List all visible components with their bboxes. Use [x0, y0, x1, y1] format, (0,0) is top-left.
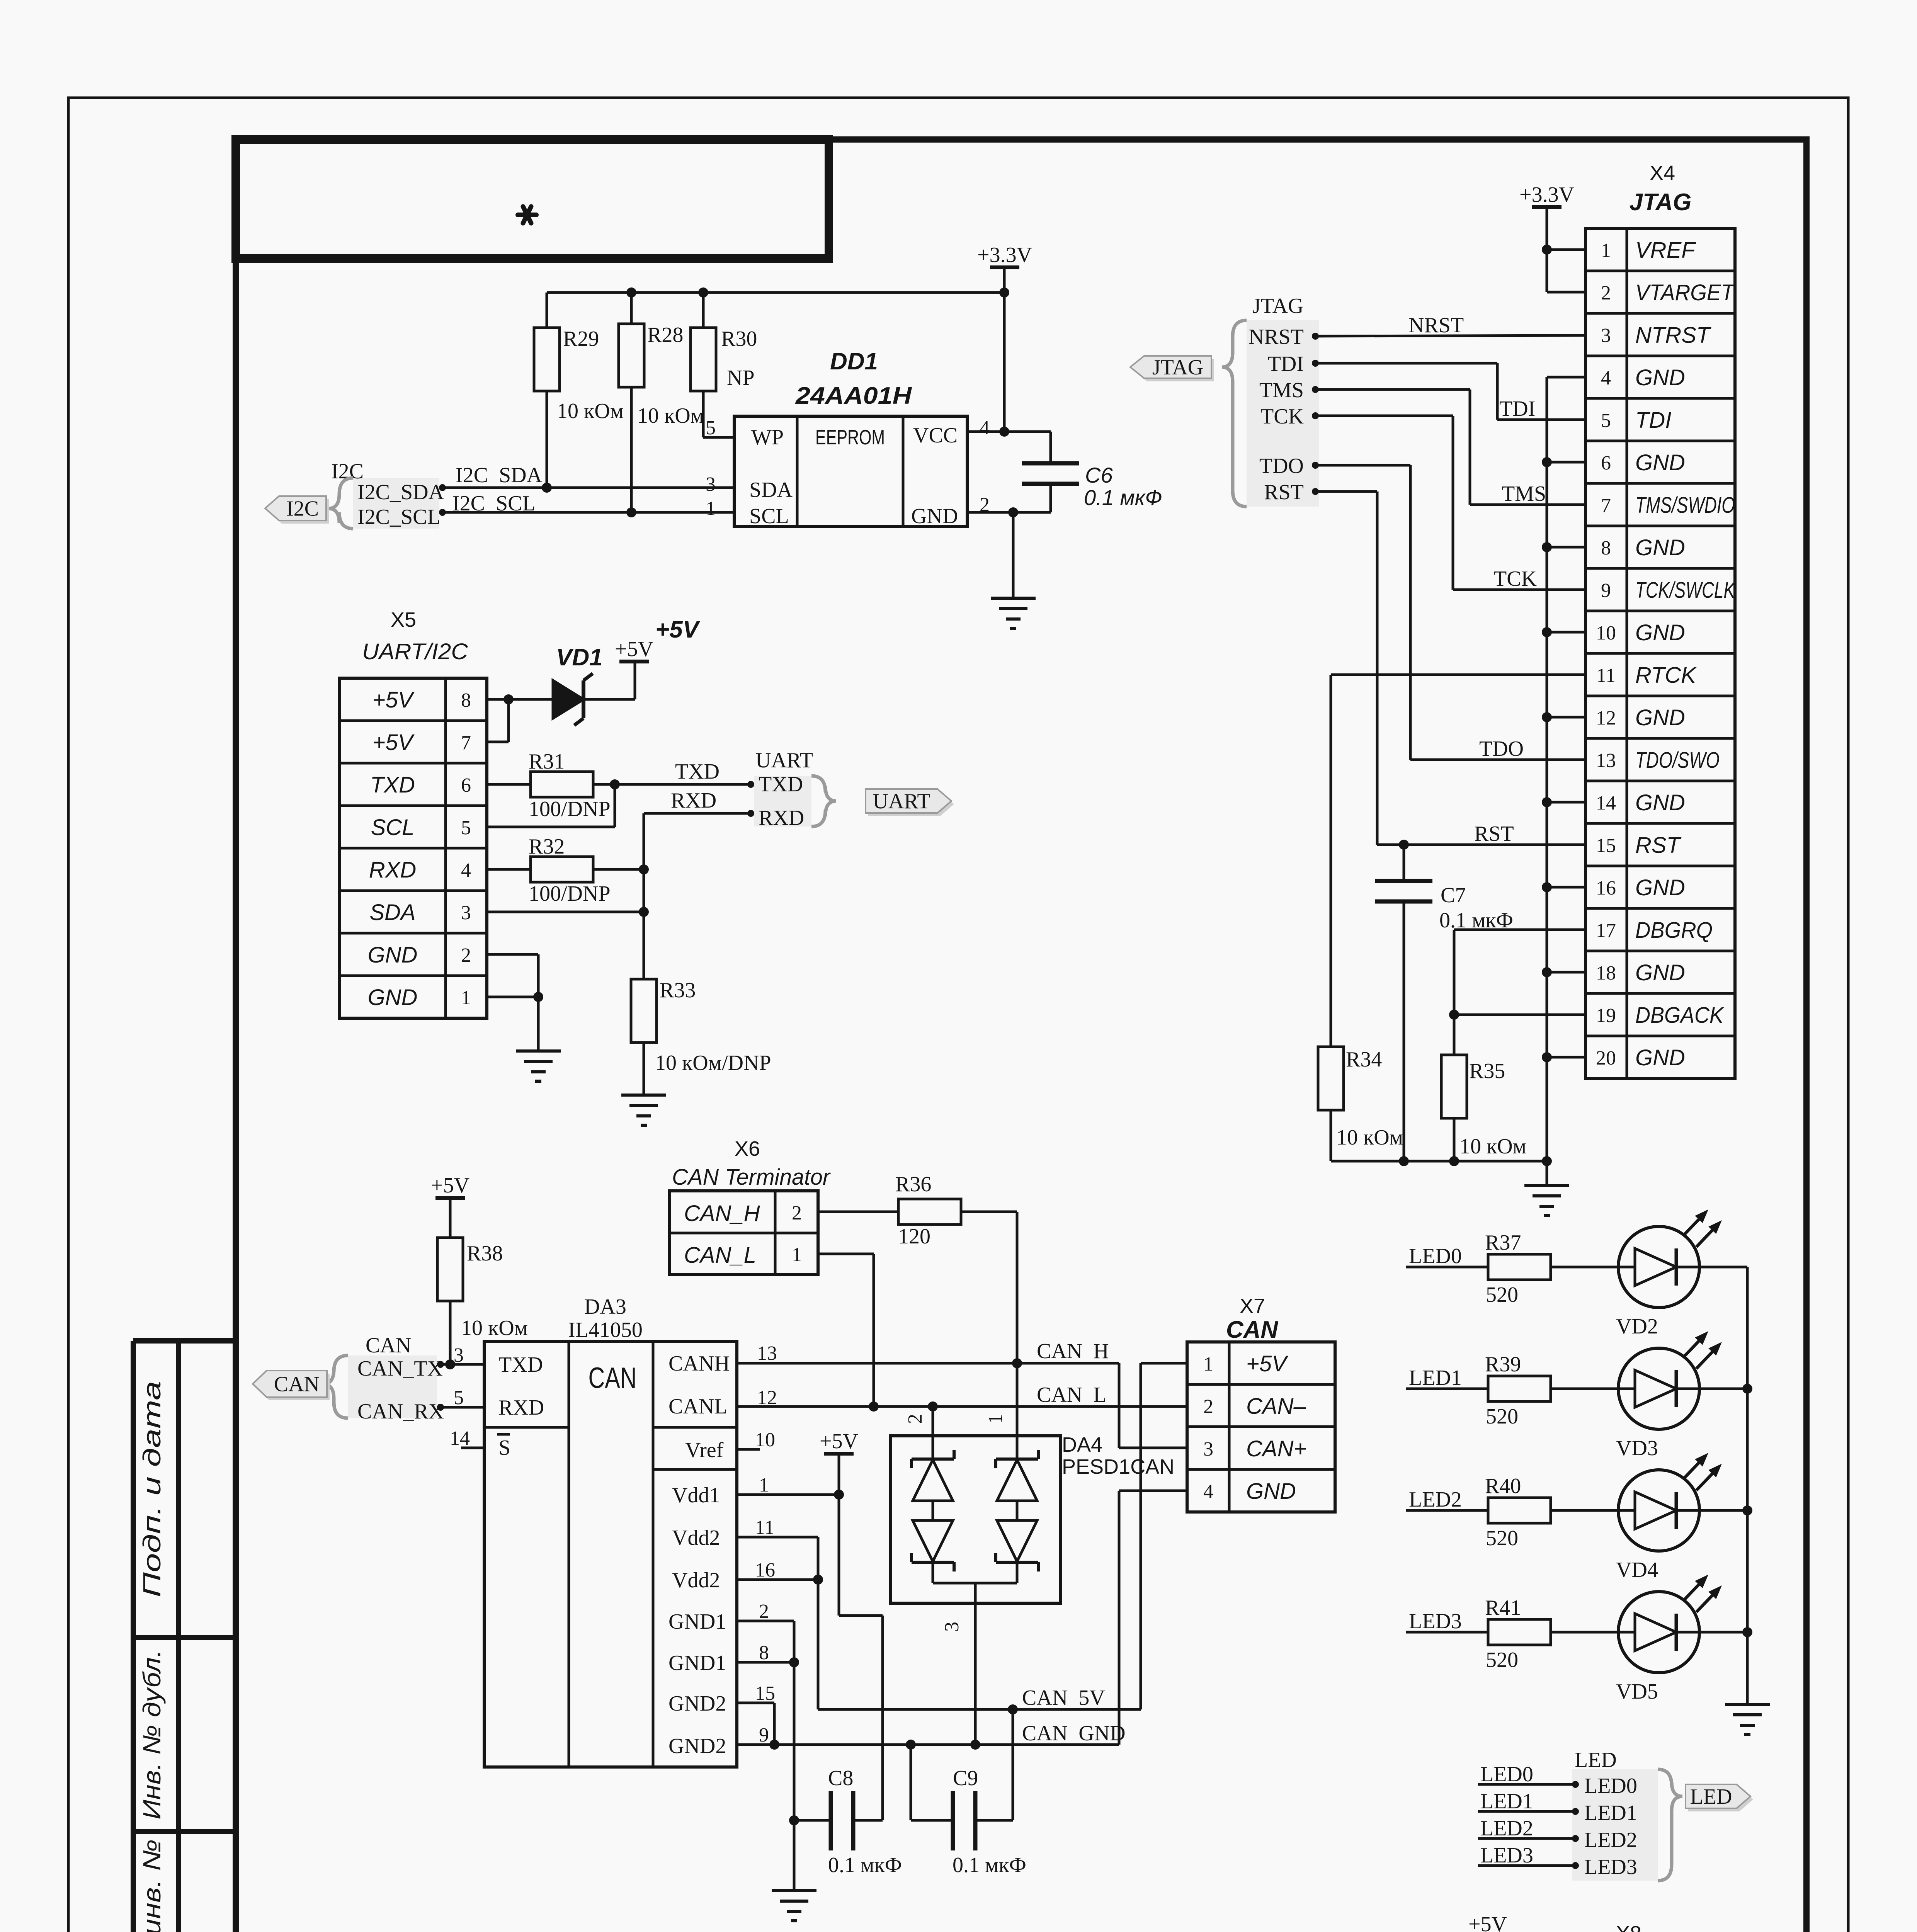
svg-text:C9: C9: [953, 1766, 978, 1790]
svg-text:DD1: DD1: [830, 348, 878, 375]
svg-text:GND: GND: [1635, 705, 1685, 730]
svg-text:Инв. № дубл.: Инв. № дубл.: [138, 1650, 166, 1820]
svg-text:GND2: GND2: [668, 1734, 726, 1758]
svg-text:R36: R36: [895, 1172, 931, 1196]
svg-text:R38: R38: [467, 1242, 503, 1265]
svg-text:GND: GND: [1635, 535, 1685, 560]
svg-text:TXD: TXD: [370, 772, 415, 798]
svg-text:1: 1: [792, 1244, 802, 1266]
svg-text:CAN 5V: CAN 5V: [1022, 1686, 1105, 1710]
svg-text:TXD: TXD: [498, 1353, 543, 1377]
svg-text:RTCK: RTCK: [1635, 663, 1697, 688]
svg-text:+5V: +5V: [820, 1429, 858, 1453]
svg-text:RST: RST: [1635, 833, 1682, 858]
svg-text:CAN H: CAN H: [1037, 1339, 1109, 1363]
svg-text:3: 3: [1601, 325, 1611, 347]
svg-text:+5V: +5V: [1468, 1912, 1507, 1932]
svg-text:VD1: VD1: [556, 644, 603, 671]
svg-text:100/DNP: 100/DNP: [529, 882, 611, 906]
svg-text:3: 3: [454, 1344, 464, 1366]
svg-text:I2C: I2C: [286, 497, 319, 521]
svg-text:2: 2: [1203, 1396, 1213, 1418]
svg-text:R35: R35: [1469, 1059, 1505, 1083]
svg-text:SCL: SCL: [371, 815, 415, 840]
svg-text:3: 3: [941, 1622, 963, 1632]
svg-text:TDI: TDI: [1635, 408, 1671, 433]
svg-text:TCK: TCK: [1493, 567, 1537, 591]
svg-text:R41: R41: [1485, 1596, 1521, 1620]
svg-text:NTRST: NTRST: [1635, 323, 1711, 348]
svg-text:CAN: CAN: [366, 1333, 411, 1357]
svg-text:JTAG: JTAG: [1152, 355, 1203, 379]
svg-text:I2C_SCL: I2C_SCL: [357, 505, 441, 529]
svg-text:X4: X4: [1650, 162, 1675, 185]
svg-text:Vdd2: Vdd2: [672, 1526, 720, 1550]
svg-text:GND: GND: [1635, 450, 1685, 475]
svg-text:16: 16: [1596, 877, 1616, 899]
svg-text:520: 520: [1486, 1283, 1518, 1307]
svg-text:CAN_RX: CAN_RX: [357, 1400, 444, 1423]
svg-text:LED2: LED2: [1409, 1488, 1462, 1512]
svg-text:TMS: TMS: [1259, 378, 1304, 402]
svg-text:1: 1: [461, 987, 471, 1009]
svg-text:3: 3: [1203, 1438, 1213, 1460]
svg-text:2: 2: [759, 1600, 769, 1622]
svg-text:LED1: LED1: [1480, 1789, 1533, 1813]
svg-text:LED0: LED0: [1409, 1244, 1462, 1268]
svg-text:8: 8: [461, 689, 471, 711]
svg-text:LED3: LED3: [1480, 1844, 1533, 1867]
svg-text:6: 6: [1601, 452, 1611, 474]
svg-text:100/DNP: 100/DNP: [529, 797, 611, 821]
svg-text:+3.3V: +3.3V: [977, 243, 1032, 267]
svg-text:CAN_H: CAN_H: [684, 1201, 760, 1226]
svg-text:CAN: CAN: [1226, 1316, 1279, 1343]
svg-text:1: 1: [1203, 1353, 1213, 1375]
svg-text:4: 4: [1203, 1481, 1213, 1503]
svg-text:5: 5: [454, 1387, 464, 1409]
svg-text:Подп. и дата: Подп. и дата: [138, 1381, 166, 1597]
svg-text:GND: GND: [368, 942, 418, 968]
svg-text:VD5: VD5: [1616, 1680, 1658, 1704]
svg-text:6: 6: [461, 774, 471, 796]
svg-text:LED0: LED0: [1480, 1762, 1533, 1786]
svg-text:+5V: +5V: [655, 616, 701, 643]
svg-text:LED2: LED2: [1584, 1828, 1637, 1852]
svg-text:C7: C7: [1441, 883, 1466, 907]
svg-text:CAN_L: CAN_L: [684, 1243, 756, 1268]
svg-text:GND: GND: [1635, 960, 1685, 985]
svg-text:+5V: +5V: [1246, 1351, 1289, 1376]
svg-text:3: 3: [706, 473, 716, 495]
svg-text:GND: GND: [1635, 620, 1685, 645]
svg-text:LED: LED: [1690, 1785, 1732, 1809]
svg-text:CAN+: CAN+: [1246, 1436, 1306, 1461]
svg-text:VTARGET: VTARGET: [1635, 280, 1735, 305]
svg-text:DA4: DA4: [1062, 1433, 1102, 1456]
svg-text:JTAG: JTAG: [1630, 189, 1692, 216]
svg-text:Vref: Vref: [685, 1438, 724, 1462]
svg-text:VD3: VD3: [1616, 1436, 1658, 1460]
svg-text:10: 10: [755, 1429, 775, 1451]
svg-text:R32: R32: [529, 835, 565, 859]
svg-text:NRST: NRST: [1249, 325, 1304, 349]
svg-text:10: 10: [1596, 622, 1616, 644]
svg-text:R39: R39: [1485, 1352, 1521, 1376]
svg-text:14: 14: [450, 1427, 470, 1449]
svg-text:X7: X7: [1240, 1294, 1265, 1318]
svg-text:+5V: +5V: [615, 637, 653, 661]
svg-text:19: 19: [1596, 1005, 1616, 1027]
svg-text:9: 9: [759, 1724, 769, 1746]
svg-text:520: 520: [1486, 1526, 1518, 1550]
svg-text:10 кОм/DNP: 10 кОм/DNP: [655, 1051, 771, 1075]
svg-text:15: 15: [1596, 835, 1616, 857]
svg-text:RST: RST: [1264, 480, 1304, 504]
svg-text:20: 20: [1596, 1047, 1616, 1069]
svg-text:+5V: +5V: [373, 730, 415, 755]
svg-text:4: 4: [1601, 367, 1611, 389]
svg-text:2: 2: [461, 944, 471, 966]
svg-text:UART/I2C: UART/I2C: [362, 639, 468, 664]
svg-text:11: 11: [755, 1517, 774, 1539]
svg-text:GND: GND: [1635, 875, 1685, 900]
svg-text:VD4: VD4: [1616, 1558, 1658, 1582]
svg-text:14: 14: [1596, 792, 1616, 814]
svg-text:LED3: LED3: [1409, 1609, 1462, 1633]
svg-text:R37: R37: [1485, 1231, 1521, 1255]
svg-text:GND1: GND1: [668, 1651, 726, 1675]
svg-text:Vdd2: Vdd2: [672, 1568, 720, 1592]
svg-text:16: 16: [755, 1559, 775, 1581]
svg-text:R29: R29: [563, 327, 599, 351]
svg-text:TMS: TMS: [1502, 482, 1546, 506]
svg-text:X5: X5: [391, 608, 416, 631]
svg-text:7: 7: [1601, 495, 1611, 517]
svg-text:11: 11: [1596, 665, 1616, 687]
svg-text:17: 17: [1596, 920, 1616, 942]
svg-text:5: 5: [706, 417, 716, 439]
svg-text:NRST: NRST: [1408, 313, 1464, 337]
svg-text:GND1: GND1: [668, 1610, 726, 1634]
svg-text:UART: UART: [755, 748, 813, 772]
svg-text:CAN–: CAN–: [1246, 1394, 1306, 1419]
svg-text:S: S: [498, 1436, 510, 1460]
svg-text:C8: C8: [828, 1766, 853, 1790]
svg-text:RXD: RXD: [671, 789, 716, 813]
svg-text:R34: R34: [1346, 1048, 1382, 1071]
svg-text:TDO: TDO: [1259, 454, 1304, 478]
svg-text:DBGACK: DBGACK: [1635, 1003, 1724, 1028]
svg-text:10 кОм: 10 кОм: [557, 399, 624, 423]
svg-text:RXD: RXD: [759, 806, 804, 830]
svg-text:TDO: TDO: [1479, 737, 1524, 761]
svg-text:RXD: RXD: [369, 857, 416, 883]
svg-text:7: 7: [461, 732, 471, 754]
svg-text:Взам. инв. №: Взам. инв. №: [138, 1839, 166, 1932]
svg-text:0.1 мкФ: 0.1 мкФ: [828, 1853, 902, 1877]
svg-text:Vdd1: Vdd1: [672, 1483, 720, 1507]
svg-text:TDI: TDI: [1499, 397, 1535, 421]
svg-text:5: 5: [461, 817, 471, 839]
svg-text:NP: NP: [727, 366, 755, 390]
svg-text:DBGRQ: DBGRQ: [1635, 918, 1713, 943]
svg-text:R28: R28: [647, 323, 683, 347]
svg-text:TCK: TCK: [1260, 405, 1304, 429]
svg-text:CANL: CANL: [668, 1395, 727, 1418]
svg-text:4: 4: [461, 859, 471, 881]
svg-text:JTAG: JTAG: [1252, 294, 1303, 318]
svg-text:+5V: +5V: [373, 687, 415, 713]
svg-text:R40: R40: [1485, 1474, 1521, 1498]
svg-text:10 кОм: 10 кОм: [637, 404, 704, 428]
svg-text:CAN: CAN: [274, 1372, 320, 1396]
svg-text:CAN Terminator: CAN Terminator: [672, 1165, 831, 1190]
svg-text:CAN GND: CAN GND: [1022, 1721, 1126, 1745]
svg-text:I2C_SDA: I2C_SDA: [357, 480, 444, 504]
svg-text:GND: GND: [368, 985, 418, 1010]
svg-text:SDA: SDA: [369, 900, 415, 925]
svg-text:5: 5: [1601, 410, 1611, 432]
svg-text:TDI: TDI: [1268, 352, 1304, 376]
svg-text:8: 8: [1601, 537, 1611, 559]
svg-text:18: 18: [1596, 962, 1616, 984]
svg-text:LED1: LED1: [1409, 1366, 1462, 1390]
svg-text:IL41050: IL41050: [568, 1318, 643, 1342]
svg-text:SDA: SDA: [749, 478, 793, 502]
svg-text:VREF: VREF: [1635, 238, 1696, 263]
svg-text:CAN_TX: CAN_TX: [357, 1357, 443, 1381]
svg-text:4: 4: [980, 417, 990, 439]
svg-text:TDO/SWO: TDO/SWO: [1635, 748, 1720, 773]
svg-text:UART: UART: [873, 789, 930, 813]
svg-text:TCK/SWCLK: TCK/SWCLK: [1635, 578, 1736, 603]
svg-text:1: 1: [759, 1474, 769, 1496]
svg-text:PESD1CAN: PESD1CAN: [1062, 1455, 1174, 1478]
svg-text:TXD: TXD: [675, 760, 720, 784]
svg-text:8: 8: [759, 1642, 769, 1664]
svg-text:GND: GND: [1635, 790, 1685, 815]
svg-text:GND2: GND2: [668, 1692, 726, 1716]
svg-text:R31: R31: [529, 750, 565, 774]
svg-text:CAN: CAN: [589, 1362, 637, 1395]
svg-text:+3.3V: +3.3V: [1519, 183, 1574, 207]
svg-text:12: 12: [1596, 707, 1616, 729]
svg-text:9: 9: [1601, 580, 1611, 602]
svg-text:C6: C6: [1085, 463, 1113, 487]
svg-text:X6: X6: [735, 1137, 760, 1160]
svg-text:13: 13: [757, 1342, 777, 1364]
svg-text:I2C SCL: I2C SCL: [452, 492, 536, 515]
svg-text:VCC: VCC: [913, 423, 958, 447]
svg-text:TMS/SWDIO: TMS/SWDIO: [1635, 493, 1735, 518]
svg-text:GND: GND: [1635, 1045, 1685, 1070]
svg-text:R30: R30: [721, 327, 757, 351]
svg-text:RXD: RXD: [498, 1396, 544, 1420]
svg-text:24AA01H: 24AA01H: [795, 383, 912, 409]
svg-text:13: 13: [1596, 750, 1616, 772]
svg-text:LED0: LED0: [1584, 1774, 1637, 1798]
svg-text:0.1 мкФ: 0.1 мкФ: [1084, 485, 1162, 510]
svg-text:GND: GND: [1246, 1479, 1296, 1504]
svg-text:X8: X8: [1616, 1922, 1641, 1932]
svg-text:EEPROM: EEPROM: [815, 426, 885, 449]
svg-text:10 кОм: 10 кОм: [461, 1316, 528, 1340]
svg-text:3: 3: [461, 902, 471, 924]
svg-text:LED3: LED3: [1584, 1855, 1637, 1879]
svg-text:LED2: LED2: [1480, 1816, 1533, 1840]
svg-text:DA3: DA3: [584, 1295, 626, 1319]
svg-text:GND: GND: [1635, 365, 1685, 390]
svg-text:520: 520: [1486, 1405, 1518, 1429]
svg-text:RST: RST: [1474, 822, 1514, 846]
svg-text:2: 2: [904, 1414, 926, 1424]
svg-text:1: 1: [706, 498, 716, 520]
svg-text:GND: GND: [911, 504, 958, 528]
svg-text:LED1: LED1: [1584, 1801, 1637, 1825]
svg-text:LED: LED: [1575, 1748, 1617, 1772]
svg-text:CANH: CANH: [668, 1352, 730, 1376]
svg-text:SCL: SCL: [749, 504, 789, 528]
svg-text:10 кОм: 10 кОм: [1459, 1134, 1526, 1158]
svg-text:120: 120: [898, 1225, 930, 1248]
svg-text:R33: R33: [660, 978, 696, 1002]
svg-text:+5V: +5V: [431, 1173, 469, 1197]
svg-text:10 кОм: 10 кОм: [1336, 1126, 1403, 1150]
svg-text:CAN L: CAN L: [1037, 1383, 1106, 1407]
svg-text:1: 1: [985, 1414, 1007, 1424]
svg-text:2: 2: [792, 1202, 802, 1224]
svg-text:1: 1: [1601, 240, 1611, 262]
svg-text:2: 2: [1601, 282, 1611, 304]
svg-text:VD2: VD2: [1616, 1315, 1658, 1338]
svg-text:WP: WP: [751, 425, 784, 449]
svg-text:0.1 мкФ: 0.1 мкФ: [953, 1853, 1026, 1877]
svg-text:520: 520: [1486, 1648, 1518, 1672]
svg-text:TXD: TXD: [759, 772, 803, 796]
svg-text:15: 15: [755, 1682, 775, 1704]
svg-text:I2C SDA: I2C SDA: [456, 463, 543, 487]
